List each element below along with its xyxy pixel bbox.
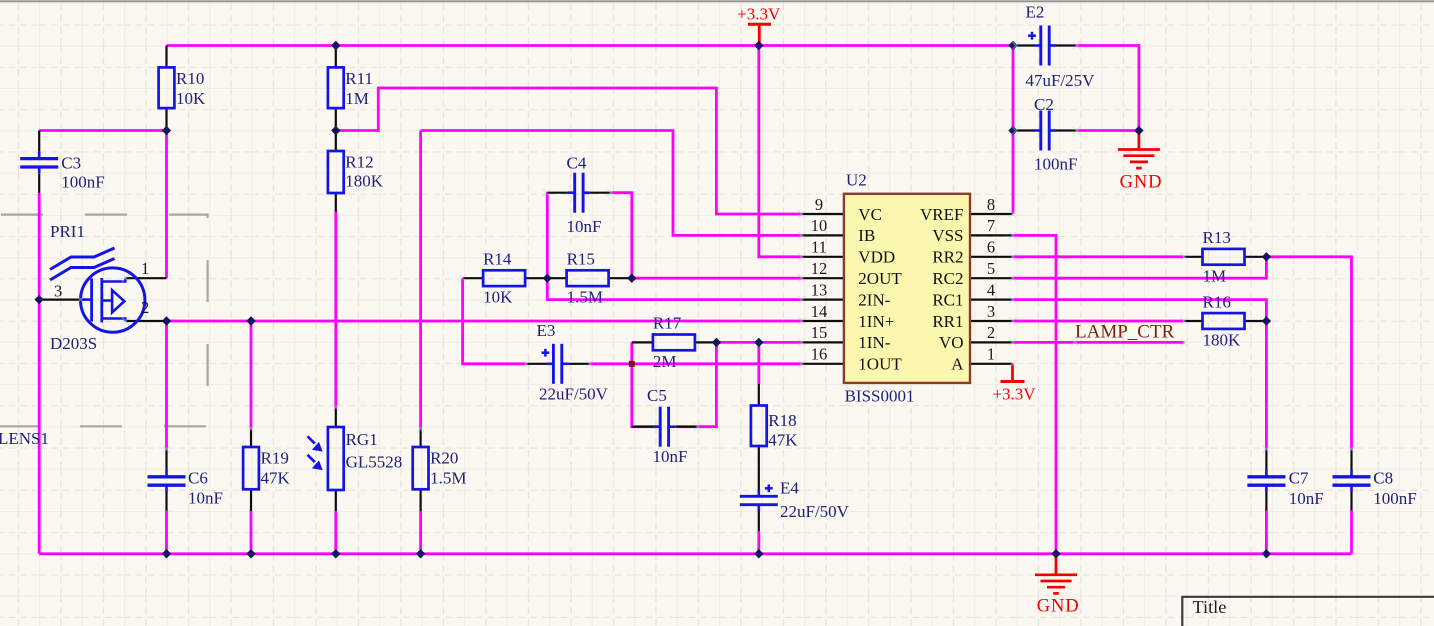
svg-text:10nF: 10nF — [653, 447, 688, 466]
svg-text:10K: 10K — [176, 89, 206, 108]
wire C5 right to R17 right — [676, 342, 716, 426]
junction — [416, 549, 425, 558]
wire R11/R12 node to U2 pin9 — [336, 88, 802, 214]
wire C7 bottom to rail — [1265, 511, 1268, 554]
wire D203S pin2 to U2 pin14 1IN+ — [167, 320, 802, 323]
svg-text:R11: R11 — [345, 69, 373, 88]
resistor R17 — [653, 314, 695, 371]
sheet border top — [0, 0, 1434, 2]
svg-text:VO: VO — [939, 333, 964, 352]
svg-text:2: 2 — [141, 298, 149, 317]
wire to R19 — [250, 321, 253, 429]
D203S pin numbers — [54, 259, 149, 317]
ground GND (top, C2/E2) — [1118, 131, 1162, 193]
wire C2 right — [1077, 129, 1139, 132]
wire R20 top to U2 pin10 — [421, 131, 802, 236]
power +3.3V (top) — [737, 4, 781, 45]
svg-text:22uF/50V: 22uF/50V — [780, 502, 850, 521]
svg-text:RC2: RC2 — [932, 269, 963, 288]
junction — [162, 126, 171, 135]
junction — [754, 41, 763, 50]
resistor R20 — [413, 447, 467, 489]
svg-text:100nF: 100nF — [1034, 155, 1077, 174]
svg-text:LAMP_CTR: LAMP_CTR — [1075, 321, 1175, 342]
wire U2 pin8 VREF up to rail — [1012, 46, 1015, 215]
wire R10 bottom to D203S pin1 — [165, 131, 168, 279]
svg-text:1.5M: 1.5M — [430, 469, 466, 488]
svg-text:R13: R13 — [1203, 228, 1231, 247]
junction — [162, 549, 171, 558]
wire C8 bottom to rail — [1350, 511, 1353, 554]
junction — [1051, 549, 1060, 558]
svg-text:47K: 47K — [261, 469, 291, 488]
svg-text:15: 15 — [811, 323, 828, 342]
svg-text:2IN-: 2IN- — [858, 290, 890, 309]
junction — [331, 126, 340, 135]
svg-text:RR2: RR2 — [932, 248, 963, 267]
wire E3 right to U2 pin16 1OUT — [590, 362, 802, 365]
svg-text:1IN+: 1IN+ — [858, 312, 894, 331]
wire U2 pin6 RR2 to R13 — [1013, 255, 1185, 258]
svg-text:C5: C5 — [647, 386, 667, 405]
capacitor C2 — [1034, 95, 1077, 174]
svg-text:180K: 180K — [1203, 331, 1242, 350]
svg-text:LENS1: LENS1 — [0, 429, 49, 448]
svg-text:9: 9 — [815, 195, 823, 214]
svg-text:10nF: 10nF — [188, 489, 223, 508]
wire U2 pin4 RC1 to C7 — [1013, 300, 1267, 450]
svg-text:2OUT: 2OUT — [858, 269, 902, 288]
svg-text:7: 7 — [987, 216, 995, 235]
svg-text:R19: R19 — [261, 449, 289, 468]
power +3.3V (U2 pin1 A) — [992, 364, 1036, 404]
svg-text:R16: R16 — [1203, 292, 1231, 311]
wire R15 right to U2 pin12 2OUT — [632, 277, 802, 280]
svg-text:1M: 1M — [345, 89, 369, 108]
wire R19 bottom to rail — [250, 511, 253, 554]
junction — [1262, 252, 1271, 261]
svg-text:VC: VC — [858, 205, 882, 224]
wire R20 bottom to rail — [419, 511, 422, 554]
resistor R13 — [1203, 228, 1245, 285]
svg-text:PRI1: PRI1 — [50, 222, 85, 241]
wire R12 bottom to RG1 — [334, 211, 337, 408]
svg-text:11: 11 — [811, 238, 827, 257]
svg-text:C3: C3 — [61, 153, 81, 172]
svg-text:2: 2 — [987, 323, 995, 342]
svg-text:C7: C7 — [1289, 469, 1309, 488]
wire E2 right down to C2 right — [1077, 46, 1139, 131]
svg-text:RG1: RG1 — [346, 430, 378, 449]
transistor D203S (PIR sensor element) — [50, 268, 145, 353]
wire +3.3V top rail — [167, 44, 1014, 47]
junction — [246, 316, 255, 325]
wire R15 node to U2 pin13 2IN- — [547, 278, 802, 299]
resistor R19 — [243, 447, 290, 489]
svg-text:A: A — [951, 355, 964, 374]
ground GND (bottom rail) — [1035, 554, 1079, 617]
svg-text:1IN-: 1IN- — [858, 333, 890, 352]
wire U2 pin3 RR1 to R16 — [1013, 320, 1185, 323]
resistor R10 — [159, 67, 206, 108]
svg-text:10: 10 — [811, 216, 828, 235]
svg-text:VDD: VDD — [858, 248, 895, 267]
op-amp U2 BISS0001 — [844, 171, 970, 406]
svg-text:GL5528: GL5528 — [346, 453, 403, 472]
svg-text:R14: R14 — [483, 250, 512, 269]
svg-text:10K: 10K — [483, 288, 513, 307]
wire R14 left down to E3 — [463, 278, 527, 364]
wire U2 pin7 VSS down to ground rail — [1013, 235, 1057, 553]
svg-text:GND: GND — [1037, 596, 1080, 616]
junction (auto) at R17/C5 left and 1OUT net — [629, 361, 635, 367]
svg-text:14: 14 — [811, 302, 828, 321]
svg-text:U2: U2 — [846, 171, 867, 190]
svg-text:1OUT: 1OUT — [858, 355, 902, 374]
svg-text:E4: E4 — [780, 479, 799, 498]
junction — [1262, 549, 1271, 558]
junction — [1262, 316, 1271, 325]
PRI1 sensor plates glyph — [50, 222, 115, 280]
svg-text:8: 8 — [987, 195, 995, 214]
svg-text:4: 4 — [987, 280, 995, 299]
junction — [1008, 126, 1017, 135]
svg-text:RC1: RC1 — [932, 290, 963, 309]
svg-text:RR1: RR1 — [932, 312, 963, 331]
junction — [331, 549, 340, 558]
capacitor C3 — [20, 152, 105, 192]
wire GND bottom rail — [39, 552, 1351, 555]
photoresistor RG1 GL5528 — [308, 427, 403, 490]
svg-text:IB: IB — [858, 226, 875, 245]
svg-text:1: 1 — [141, 259, 149, 278]
resistor R11 — [328, 67, 373, 108]
wire C4 left to R14/R15 node — [546, 193, 549, 279]
wire +3.3V to U2 pin11 VDD — [759, 46, 802, 257]
svg-text:12: 12 — [811, 259, 828, 278]
capacitor C5 — [647, 386, 687, 466]
wire U2 pin2 VO net LAMP_CTR — [1013, 341, 1185, 344]
svg-text:3: 3 — [987, 302, 995, 321]
svg-text:C8: C8 — [1373, 469, 1393, 488]
U2 pin numbers — [811, 195, 995, 364]
svg-text:180K: 180K — [345, 172, 384, 191]
wire R17 right to U2 pin15 1IN- — [716, 341, 802, 344]
wire RG1 bottom to rail — [334, 511, 337, 554]
svg-text:6: 6 — [987, 238, 995, 257]
junction — [754, 549, 763, 558]
svg-text:C6: C6 — [188, 469, 208, 488]
wire C3 bottom / pin3 column — [38, 193, 41, 554]
wire C4 right to R15 right node — [611, 193, 632, 279]
junction — [331, 41, 340, 50]
capacitor E3 (electrolytic) — [537, 321, 609, 404]
svg-text:R15: R15 — [567, 250, 595, 269]
wire C3 to R10 node — [39, 129, 166, 132]
wire E4 bottom to rail — [757, 531, 760, 554]
capacitor C4 — [567, 154, 602, 237]
svg-text:E2: E2 — [1026, 3, 1045, 22]
svg-text:1: 1 — [987, 345, 995, 364]
svg-text:R18: R18 — [768, 411, 796, 430]
svg-text:22uF/50V: 22uF/50V — [539, 385, 609, 404]
junction — [1134, 126, 1143, 135]
svg-text:100nF: 100nF — [1373, 489, 1416, 508]
svg-text:47K: 47K — [768, 430, 798, 449]
svg-text:C2: C2 — [1034, 95, 1054, 114]
svg-text:+3.3V: +3.3V — [737, 4, 781, 23]
svg-text:R12: R12 — [345, 153, 373, 172]
svg-text:1.5M: 1.5M — [567, 288, 603, 307]
capacitor E2 — [1026, 3, 1096, 90]
capacitor C8 — [1333, 469, 1417, 509]
svg-text:13: 13 — [811, 280, 828, 299]
resistor R15 — [567, 250, 609, 307]
svg-text:E3: E3 — [537, 321, 556, 340]
wire C6 bottom to rail — [165, 511, 168, 554]
endpoint markers — [77, 42, 1355, 453]
svg-text:GND: GND — [1120, 173, 1163, 193]
pin leads (black) — [39, 46, 1351, 532]
svg-text:10nF: 10nF — [567, 217, 602, 236]
svg-text:BISS0001: BISS0001 — [845, 387, 915, 406]
title block — [1182, 597, 1434, 626]
svg-text:Title: Title — [1193, 597, 1227, 617]
svg-text:VSS: VSS — [932, 226, 963, 245]
junction — [627, 274, 636, 283]
resistor R12 — [328, 151, 384, 193]
junction — [35, 295, 44, 304]
svg-text:R10: R10 — [176, 69, 204, 88]
svg-text:16: 16 — [811, 345, 828, 364]
wire R13 right to C8 — [1266, 257, 1351, 450]
wire pin15 node down to R18 — [757, 342, 760, 384]
junction — [712, 338, 721, 347]
U2 pin stubs — [802, 214, 1013, 364]
junction — [162, 316, 171, 325]
wire R17 left to C5 left — [632, 342, 658, 426]
capacitor C7 — [1247, 469, 1323, 509]
svg-text:5: 5 — [987, 259, 995, 278]
svg-text:3: 3 — [54, 282, 62, 301]
svg-text:100nF: 100nF — [61, 172, 104, 191]
svg-text:47uF/25V: 47uF/25V — [1026, 71, 1096, 90]
svg-text:R17: R17 — [653, 314, 682, 333]
wire down to R20 — [419, 131, 422, 430]
svg-text:+3.3V: +3.3V — [992, 385, 1036, 404]
svg-text:R20: R20 — [430, 449, 458, 468]
svg-text:VREF: VREF — [920, 205, 963, 224]
resistor R16 — [1203, 292, 1245, 349]
junction — [246, 549, 255, 558]
svg-text:C4: C4 — [567, 154, 587, 173]
svg-text:1M: 1M — [1203, 266, 1227, 285]
resistor R14 — [483, 250, 525, 307]
svg-text:2M: 2M — [653, 352, 677, 371]
svg-text:D203S: D203S — [50, 334, 97, 353]
svg-text:10nF: 10nF — [1289, 489, 1324, 508]
wire D203S pin2 down to C6 — [165, 321, 168, 449]
junction — [543, 274, 552, 283]
capacitor E4 (electrolytic) — [740, 479, 850, 522]
junction — [1008, 41, 1017, 50]
capacitor C6 — [148, 469, 223, 508]
wire R13 right to U2 pin5 RC2 — [1013, 257, 1267, 278]
junction — [754, 338, 763, 347]
resistor R18 — [751, 406, 798, 450]
PRI1 sensor enclosure (dashed box) — [0, 215, 208, 427]
